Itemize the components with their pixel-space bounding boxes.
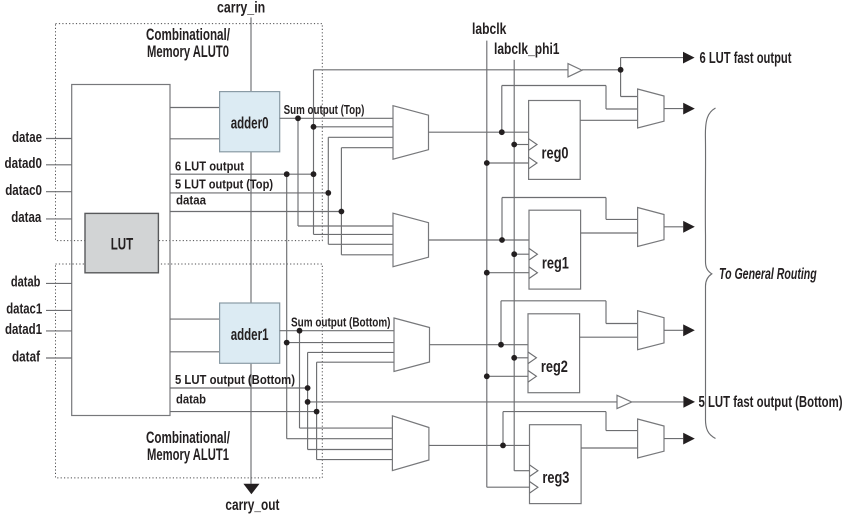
svg-text:Sum output (Bottom): Sum output (Bottom) — [291, 314, 391, 329]
svg-text:5 LUT output (Top): 5 LUT output (Top) — [175, 177, 273, 192]
wire stub 5LUT-bottom to mux3 in3 — [308, 449, 393, 451]
output mux reg1 — [638, 208, 664, 247]
wire reg0 bypass top run — [502, 85, 606, 87]
wire labclk_phi1 to reg0 ck1 — [514, 144, 528, 146]
svg-text:carry_out: carry_out — [225, 497, 279, 514]
wire reg3 bypass top run — [503, 411, 606, 413]
wire buffer to junction — [582, 69, 621, 71]
svg-text:Memory ALUT1: Memory ALUT1 — [147, 446, 229, 464]
wire mux1 out to reg1 D — [429, 239, 530, 241]
svg-text:datab: datab — [11, 274, 40, 291]
ALUT1 dotted boundary (Combinational/Memory ALUT1) — [56, 264, 323, 478]
junction 6LUT to mux2 — [284, 340, 290, 346]
wire to 6LUT fast arrow — [621, 57, 683, 59]
wire reg0 bypass to outmux0 — [606, 108, 638, 110]
mux2 (input select, reg2) — [394, 318, 430, 372]
wire riser datab — [316, 362, 318, 459]
wire riser 6LUT down to mux2/mux3 — [286, 174, 288, 439]
output mux reg2 — [638, 311, 664, 350]
junction reg1 bypass tap — [499, 237, 505, 243]
svg-text:5 LUT output (Bottom): 5 LUT output (Bottom) — [175, 372, 295, 387]
wire reg2 bypass to outmux2 — [606, 323, 638, 325]
carry_out arrowhead — [243, 484, 259, 494]
svg-text:5 LUT fast output (Bottom): 5 LUT fast output (Bottom) — [699, 394, 843, 411]
wire reg2 Q to outmux2 — [580, 336, 638, 338]
wire datab feed — [170, 411, 317, 413]
reg1 clock chevron 2 — [529, 267, 537, 279]
wire input datae — [46, 138, 72, 140]
ALUT0 dotted boundary (Combinational/Memory ALUT0) — [56, 24, 323, 241]
svg-text:datac0: datac0 — [5, 182, 42, 199]
wire 5LUT fast bottom run — [308, 401, 617, 403]
register reg1 — [529, 210, 581, 289]
brace to general routing — [705, 108, 715, 439]
svg-text:LUT: LUT — [111, 234, 134, 253]
wire reg1 Q to outmux1 — [581, 232, 638, 234]
wire outmux1 to arrow — [664, 226, 683, 228]
reg3 clock chevron 2 — [530, 482, 538, 494]
wire ALM to adder0 input A — [170, 107, 220, 109]
wire input datac0 — [46, 191, 72, 193]
svg-text:reg2: reg2 — [541, 357, 568, 376]
svg-text:adder1: adder1 — [231, 325, 269, 344]
LUT block — [85, 213, 158, 272]
output arrowhead 2 (to general routing) — [683, 324, 695, 336]
wire input datac1 — [46, 309, 72, 311]
buffer 6LUT fast — [568, 64, 582, 77]
junction 6LUT fast tee — [618, 67, 624, 73]
junction labclk reg0 — [484, 160, 490, 166]
wire reg3 Q to outmux3 — [581, 447, 638, 449]
wire Sum output (Top) adder0 to mux0 in1 — [280, 117, 393, 119]
svg-text:carry_in: carry_in — [217, 0, 265, 17]
svg-text:adder0: adder0 — [231, 113, 269, 132]
wire labclk_phi1 to reg1 ck1 — [514, 253, 529, 255]
wire mux0 out to reg0 D — [429, 131, 529, 133]
wire reg1 bypass riser — [501, 198, 503, 241]
6 LUT fast output arrowhead — [683, 52, 695, 64]
wire ALM to adder1 input B — [170, 351, 220, 353]
reg1 clock chevron 1 — [529, 248, 537, 260]
junction 5LUT-top tap — [325, 190, 331, 196]
svg-text:6 LUT fast output: 6 LUT fast output — [700, 50, 792, 67]
reg3 clock chevron 1 — [530, 465, 538, 477]
wire carry adder0 to adder1 — [250, 152, 252, 303]
junction phi1 reg2 — [511, 355, 517, 361]
wire stub dataa to mux1 in4 — [341, 254, 393, 256]
svg-text:labclk_phi1: labclk_phi1 — [494, 41, 560, 58]
junction reg2 bypass tap — [498, 342, 504, 348]
wire input datad1 — [46, 330, 72, 332]
wire stub sum-bottom to mux3 in1 — [300, 427, 393, 429]
junction labclk reg1 — [484, 270, 490, 276]
mux0 (input select, reg0) — [393, 106, 429, 160]
wire stub datab to mux3 in4 — [317, 459, 393, 461]
mux1 (input select, reg1) — [393, 213, 429, 267]
reg2 clock chevron 1 — [528, 352, 536, 364]
mux3 (input select, reg3) — [392, 416, 429, 471]
output arrowhead 3 (to general routing) — [683, 433, 695, 445]
junction 6LUT line B — [311, 171, 317, 177]
wire 5 LUT output (Top) — [170, 192, 328, 194]
wire riser 5LUT-top — [327, 137, 329, 244]
register reg2 — [528, 314, 580, 393]
junction sum-top tap — [295, 115, 301, 121]
junction dataa tap — [339, 209, 345, 215]
ALM core block — [72, 85, 170, 416]
wire adder1 to carry_out — [250, 363, 252, 484]
wire reg1 bypass top run — [502, 197, 606, 199]
wire 6 LUT output — [170, 173, 314, 175]
junction phi1 reg1 — [511, 251, 517, 257]
wire riser sum-bottom to mux3 — [299, 331, 301, 428]
output mux reg3 — [638, 419, 664, 458]
output arrowhead 1 (to general routing) — [683, 221, 695, 233]
junction phi1 reg0 — [511, 142, 517, 148]
junction sum-bottom tap — [297, 328, 303, 334]
register reg3 — [530, 425, 582, 504]
wire stub 6LUT to mux1 in2 — [314, 233, 394, 235]
wire outmux2 to arrow — [664, 329, 683, 331]
wire labclk to reg0 ck2 — [487, 162, 529, 164]
wire stub to outmux0 in1 — [621, 96, 638, 98]
junction reg0 bypass tap — [499, 129, 505, 135]
wire labclk to reg3 ck2 — [487, 486, 530, 488]
output mux reg0 — [638, 89, 664, 128]
wire junction down to outmux0 in1 — [620, 70, 622, 97]
wire dataa feed — [170, 211, 341, 213]
junction 6LUT line A — [284, 171, 290, 177]
wire reg0 Q to outmux0 — [580, 119, 637, 121]
junction reg3 bypass tap — [500, 443, 506, 449]
junction 5LUT fast tap — [305, 399, 311, 405]
svg-text:dataa: dataa — [176, 192, 207, 207]
wire riser 6LUT (up to fast output / down to mux1) — [313, 70, 315, 235]
wire stub 5LUT-top to mux1 in3 — [328, 243, 393, 245]
svg-text:dataf: dataf — [12, 348, 41, 365]
adder0 block — [220, 92, 280, 152]
wire stub 6LUT to mux0 in2 — [314, 126, 394, 128]
adder1 block — [220, 303, 280, 363]
wire outmux3 to arrow — [664, 438, 683, 440]
wire labclk vertical — [486, 41, 488, 488]
svg-text:To General Routing: To General Routing — [719, 266, 817, 283]
wire riser sum-top to mux1 — [297, 118, 299, 226]
svg-text:datac1: datac1 — [6, 301, 42, 318]
svg-text:labclk: labclk — [472, 21, 507, 38]
wire stub 5LUT-top to mux0 in3 — [328, 136, 393, 138]
wire buffer to arrow — [632, 401, 684, 403]
wire reg1 bypass to outmux1 — [606, 218, 638, 220]
wire reg1 bypass drop — [605, 198, 607, 220]
wire reg3 bypass to outmux3 — [606, 430, 638, 432]
reg0 clock chevron 2 — [529, 157, 537, 169]
svg-text:Combinational/: Combinational/ — [146, 26, 230, 44]
wire 5 LUT output (Bottom) — [170, 387, 308, 389]
wire reg3 bypass riser — [502, 412, 504, 446]
wire ALM to adder1 input A — [170, 318, 220, 320]
wire reg2 bypass top run — [501, 300, 606, 302]
wire mux2 out to reg2 D — [430, 344, 529, 346]
buffer 5LUT fast (Bottom) — [617, 395, 632, 408]
wire stub sum-top to mux1 in1 — [298, 225, 393, 227]
junction 6LUT to mux0 — [311, 124, 317, 130]
wire riser 5LUT-bottom — [307, 352, 309, 449]
svg-text:datae: datae — [12, 129, 42, 146]
wire input dataa — [46, 218, 72, 220]
wire stub 6LUT to mux3 in2 — [287, 438, 393, 440]
wire outmux0 to arrow — [664, 108, 683, 110]
wire 6LUT fast output run — [314, 69, 569, 71]
svg-text:Memory ALUT0: Memory ALUT0 — [147, 43, 229, 61]
wire labclk to reg1 ck2 — [487, 272, 529, 274]
svg-text:Sum output (Top): Sum output (Top) — [284, 102, 365, 117]
junction datab tap — [314, 409, 320, 415]
junction labclk reg2 — [484, 373, 490, 379]
svg-text:reg1: reg1 — [542, 253, 569, 272]
wire labclk_phi1 to reg2 ck1 — [514, 357, 528, 359]
svg-text:reg0: reg0 — [542, 144, 569, 163]
wire reg2 bypass drop — [605, 301, 607, 324]
wire labclk to reg2 ck2 — [487, 375, 528, 377]
svg-text:datab: datab — [176, 392, 206, 407]
wire junction up — [620, 58, 622, 70]
output arrowhead 0 (to general routing) — [683, 103, 695, 115]
wire stub 6LUT to mux2 in2 — [287, 342, 394, 344]
wire input datab — [46, 282, 72, 284]
wire ALM to adder0 input B — [170, 138, 220, 140]
register reg0 — [529, 101, 581, 180]
wire reg3 bypass drop — [605, 412, 607, 431]
wire labclk_phi1 vertical — [513, 60, 515, 471]
wire input datad0 — [46, 164, 72, 166]
wire riser dataa — [340, 148, 342, 255]
svg-text:dataa: dataa — [11, 209, 42, 226]
junction 5LUT-bottom tap — [305, 385, 311, 391]
wire labclk_phi1 to reg3 ck1 — [514, 470, 529, 472]
wire stub 5LUT-bottom to mux2 in3 — [308, 351, 394, 353]
svg-text:Combinational/: Combinational/ — [146, 429, 230, 447]
wire stub datab to mux2 in4 — [317, 361, 394, 363]
wire reg0 bypass riser — [501, 86, 503, 133]
wire Sum output (Bottom) adder1 to mux2 in1 — [280, 330, 394, 332]
svg-text:6 LUT output: 6 LUT output — [175, 159, 245, 174]
wire input dataf — [46, 357, 72, 359]
wire mux3 out to reg3 D — [429, 444, 530, 446]
wire reg2 bypass riser — [500, 301, 502, 345]
wire stub dataa to mux0 in4 — [341, 147, 393, 149]
svg-text:datad1: datad1 — [5, 321, 42, 338]
5 LUT fast output (Bottom) arrowhead — [683, 396, 695, 408]
svg-text:datad0: datad0 — [5, 155, 43, 172]
wire carry_in to adder0 — [250, 17, 252, 91]
reg2 clock chevron 2 — [528, 371, 536, 383]
reg0 clock chevron 1 — [529, 139, 537, 151]
svg-text:reg3: reg3 — [542, 468, 569, 487]
wire reg0 bypass drop — [605, 86, 607, 110]
